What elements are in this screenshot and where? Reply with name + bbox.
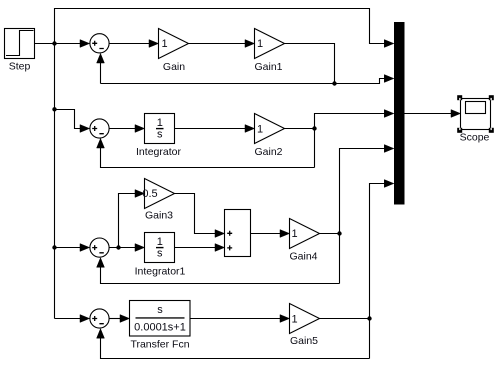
svg-text:1: 1 — [157, 117, 163, 129]
svg-text:s: s — [157, 304, 163, 316]
svg-text:Gain3: Gain3 — [145, 210, 173, 222]
svg-text:Integrator: Integrator — [136, 146, 181, 158]
svg-text:1: 1 — [291, 228, 297, 240]
svg-text:Gain2: Gain2 — [254, 146, 282, 158]
svg-text:1: 1 — [257, 123, 263, 135]
svg-text:Scope: Scope — [460, 132, 490, 144]
svg-text:Gain5: Gain5 — [290, 335, 318, 347]
svg-text:1: 1 — [157, 236, 163, 248]
svg-text:s: s — [157, 248, 163, 260]
svg-text:1: 1 — [161, 38, 167, 50]
svg-text:s: s — [157, 129, 163, 141]
svg-text:Step: Step — [9, 61, 31, 73]
svg-text:Gain4: Gain4 — [289, 251, 317, 263]
svg-text:1: 1 — [291, 314, 297, 326]
svg-text:0.5: 0.5 — [142, 188, 157, 200]
svg-text:Integrator1: Integrator1 — [135, 266, 186, 278]
svg-text:Gain1: Gain1 — [254, 61, 282, 73]
svg-text:Transfer Fcn: Transfer Fcn — [130, 339, 189, 351]
svg-text:1: 1 — [257, 38, 263, 50]
svg-text:0.0001s+1: 0.0001s+1 — [134, 322, 186, 334]
svg-text:Gain: Gain — [163, 61, 185, 73]
